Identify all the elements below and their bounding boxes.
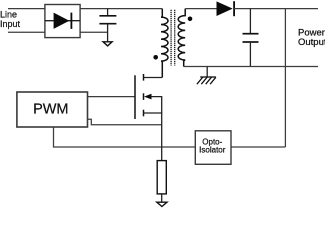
transistor Q1 body tick (143, 93, 145, 100)
transistor Q1 source tick (143, 110, 145, 117)
ground: sense resistor open triangle (157, 202, 167, 206)
transformer T1 primary winding (161, 9, 168, 78)
resistor R1 (157, 161, 166, 194)
wire: PWM bottom to opto input (54, 127, 196, 147)
earth ground stub (206, 67, 208, 78)
wire: top output rail (234, 8, 318, 10)
diode D2 cathode bar (233, 1, 235, 16)
PWM box U1 (17, 92, 88, 127)
wire: source down to resistor (144, 113, 162, 161)
wire: feedback vertical from top rail to opto output (284, 9, 286, 147)
wire: body to source tie (151, 97, 162, 113)
svg-text:PWM: PWM (33, 102, 68, 118)
wire: bridge bottom to cap junction (80, 31, 108, 33)
wire: PWM sense jog (88, 119, 162, 124)
diode D2 triangle (217, 1, 233, 16)
earth ground hatches (197, 77, 203, 84)
transformer T1 primary polarity dot (153, 55, 158, 60)
wire: resistor to ground (161, 194, 163, 202)
bridge rectifier diode D1 cathode bar (70, 13, 72, 29)
wire: top rail bridge to transformer (80, 8, 162, 10)
bridge rectifier box (45, 5, 80, 38)
wire: bottom output rail (184, 66, 319, 68)
transistor Q1 gate bar (134, 75, 136, 119)
bridge rectifier diode D1 mid line (45, 20, 80, 22)
capacitor C2 plates (243, 33, 259, 35)
transformer T1 secondary polarity dot (188, 17, 193, 22)
svg-text:Output: Output (298, 37, 325, 48)
opto-isolator box U2 (195, 131, 231, 165)
wire: secondary top to diode D2 (185, 8, 216, 10)
wire: drain to transformer (144, 77, 163, 79)
svg-text:Input: Input (0, 19, 21, 29)
transistor Q1 drain tick (143, 74, 145, 81)
transistor Q1 body arrow (144, 94, 152, 100)
bridge rectifier diode D1 triangle (54, 13, 70, 29)
capacitor C1 bottom stub (107, 24, 109, 42)
capacitor C2 top stub (249, 9, 251, 34)
capacitor C1 plates (99, 15, 116, 17)
svg-text:Line: Line (0, 9, 17, 19)
wire: line input top (8, 8, 45, 10)
wire: line input bottom (8, 31, 45, 33)
transformer T1 core lines (170, 10, 172, 66)
capacitor C2 bottom stub (249, 42, 251, 67)
ground: input side open triangle (103, 42, 112, 46)
wire: PWM to gate (88, 96, 136, 98)
earth ground bar (200, 76, 216, 78)
capacitor C1 top stub (107, 9, 109, 16)
svg-text:Isolator: Isolator (199, 145, 226, 154)
transformer T1 secondary winding (178, 9, 185, 67)
wire: opto output horizontal (231, 146, 285, 148)
